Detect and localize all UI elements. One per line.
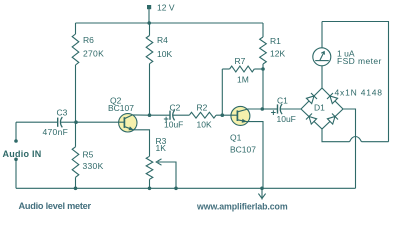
svg-text:BC107: BC107 [108,103,134,113]
svg-text:470nF: 470nF [43,127,69,137]
svg-text:D1: D1 [314,103,325,113]
svg-text:270K: 270K [83,49,104,59]
svg-text:C3: C3 [57,108,68,118]
svg-text:R1: R1 [270,36,281,46]
svg-text:12 V: 12 V [157,3,175,13]
svg-text:Audio IN: Audio IN [3,149,42,159]
svg-text:R5: R5 [83,150,94,160]
svg-text:+: + [164,114,169,124]
svg-text:Q1: Q1 [230,133,242,143]
svg-text:1M: 1M [237,75,249,85]
svg-text:R2: R2 [197,102,208,112]
svg-text:R7: R7 [235,56,246,66]
svg-text:www.amplifierlab.com: www.amplifierlab.com [196,201,288,211]
svg-text:1K: 1K [156,143,167,153]
svg-text:R6: R6 [83,35,94,45]
svg-text:C1: C1 [277,95,288,105]
svg-text:10K: 10K [197,120,212,130]
svg-text:10K: 10K [157,49,172,59]
svg-text:FSD meter: FSD meter [337,56,382,66]
svg-text:12K: 12K [270,49,285,59]
svg-text:BC107: BC107 [230,144,256,154]
svg-text:+: + [271,107,276,117]
svg-text:Audio level meter: Audio level meter [19,201,92,211]
svg-text:C2: C2 [170,102,181,112]
svg-text:330K: 330K [83,161,104,171]
svg-text:10uF: 10uF [277,114,296,124]
svg-text:R4: R4 [157,35,168,45]
svg-text:4x1N 4148: 4x1N 4148 [335,88,383,98]
